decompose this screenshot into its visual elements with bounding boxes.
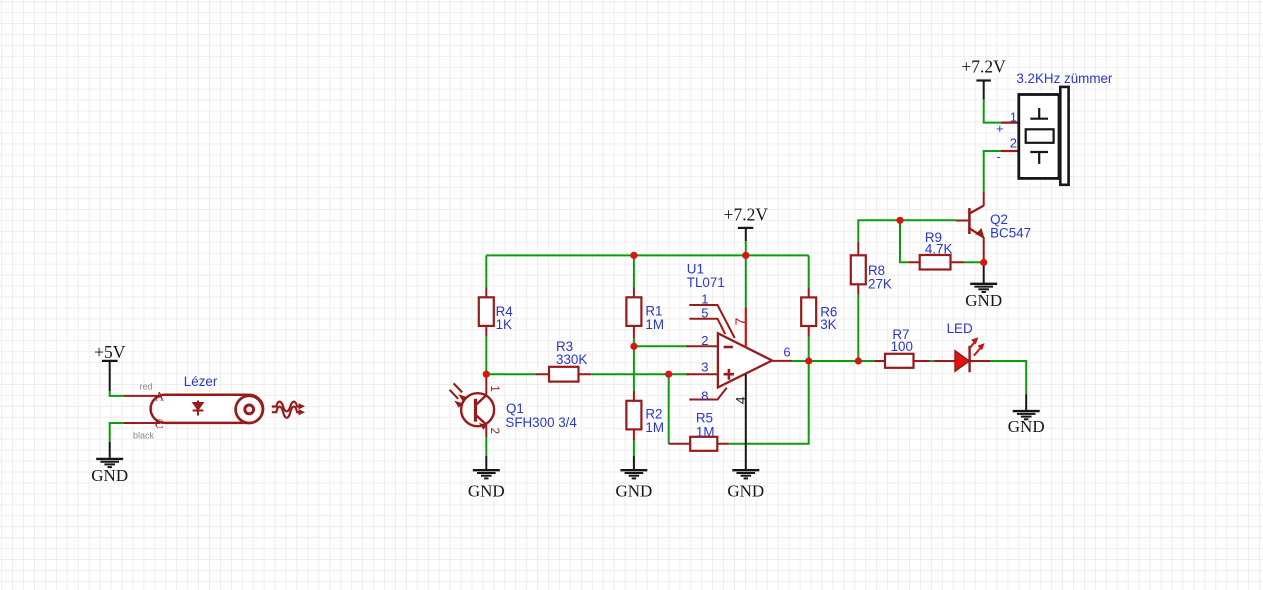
wire buzzer pin 2 to Q2 collector xyxy=(984,151,1001,192)
svg-text:6: 6 xyxy=(783,345,790,360)
wire R5 to output node xyxy=(729,361,809,444)
junction rail/pin7 xyxy=(742,252,749,259)
svg-text:8: 8 xyxy=(701,389,708,404)
svg-text:SFH300 3/4: SFH300 3/4 xyxy=(505,415,577,430)
svg-text:1: 1 xyxy=(701,292,708,307)
wire R1 to R2 (pin2 net vertical) xyxy=(633,338,635,391)
svg-text:1: 1 xyxy=(1010,109,1017,124)
plus mark xyxy=(724,369,734,380)
ground GND (R2) xyxy=(615,456,652,501)
svg-text:3K: 3K xyxy=(820,317,836,332)
svg-text:GND: GND xyxy=(615,482,652,501)
op-amp U1 TL071 xyxy=(687,262,792,471)
minus mark xyxy=(724,346,733,349)
svg-text:2: 2 xyxy=(1010,136,1017,151)
svg-text:1M: 1M xyxy=(645,317,664,332)
resistor R5 xyxy=(669,411,729,451)
svg-text:+7.2V: +7.2V xyxy=(961,56,1006,76)
pin 6 output xyxy=(772,360,792,362)
wire node to R3 xyxy=(486,373,535,375)
resistor R8 xyxy=(851,242,892,295)
wire +5V to laser pin A xyxy=(110,391,124,396)
+7.2V supply symbol (op-amp) xyxy=(724,205,769,241)
svg-text:7: 7 xyxy=(732,318,748,326)
svg-text:3.2KHz zümmer: 3.2KHz zümmer xyxy=(1016,71,1113,86)
svg-text:black: black xyxy=(133,431,155,441)
pin C lead xyxy=(123,422,160,424)
pin 2 xyxy=(687,345,718,347)
junction pin3/R5 xyxy=(665,371,672,378)
svg-text:Lézer: Lézer xyxy=(184,374,218,389)
svg-text:GND: GND xyxy=(965,291,1002,310)
lens circle xyxy=(236,396,263,423)
junction out/R8 xyxy=(855,357,862,364)
svg-text:330K: 330K xyxy=(556,352,587,367)
svg-text:GND: GND xyxy=(468,482,505,501)
wire rail to R1 xyxy=(633,255,635,287)
wire Q1 emitter to ground xyxy=(485,437,487,456)
beam squiggle arrows xyxy=(272,402,301,412)
ground GND (laser) xyxy=(91,442,128,485)
wire rail to R4 xyxy=(485,255,487,287)
wire R8 to base net xyxy=(858,220,955,242)
svg-text:2: 2 xyxy=(488,428,500,434)
svg-text:-: - xyxy=(997,149,1001,164)
junction base/R9 xyxy=(896,217,903,224)
svg-text:5: 5 xyxy=(701,306,708,321)
ground GND (Q1) xyxy=(468,456,505,501)
top power rail wire xyxy=(486,254,808,256)
wire R9 to emitter node xyxy=(964,261,984,263)
svg-text:1K: 1K xyxy=(496,317,512,332)
pin 3 xyxy=(687,373,718,375)
svg-text:1M: 1M xyxy=(696,424,715,439)
svg-text:27K: 27K xyxy=(868,277,892,292)
pin 7 (V+) xyxy=(745,308,747,348)
crystal element xyxy=(1030,108,1048,119)
buzzer SG1 3.2KHz zümmer xyxy=(996,71,1113,185)
svg-text:red: red xyxy=(140,382,153,392)
svg-text:+7.2V: +7.2V xyxy=(724,205,769,225)
wire output to R8 xyxy=(857,295,859,362)
wire output net xyxy=(792,360,875,362)
svg-text:1M: 1M xyxy=(645,420,664,435)
resistor R9 xyxy=(908,230,964,269)
resistor R1 xyxy=(626,288,664,339)
svg-text:GND: GND xyxy=(91,466,128,485)
ground GND (LED) xyxy=(1008,394,1045,436)
internal diode xyxy=(197,401,199,416)
wire +7.2V to buzzer pin 1 xyxy=(984,100,1001,123)
wire R7 to LED xyxy=(930,360,935,362)
pin A lead xyxy=(123,395,160,397)
svg-text:C: C xyxy=(155,416,164,431)
junction out/R6 xyxy=(805,357,812,364)
laser module (Lézer) xyxy=(123,374,305,431)
wire R6 to output xyxy=(808,337,810,362)
pin 1 xyxy=(689,305,734,338)
wire Q2 emitter to ground xyxy=(983,263,985,284)
svg-text:+: + xyxy=(996,121,1004,136)
body xyxy=(1019,95,1059,179)
wire base node down to R9 xyxy=(900,220,908,262)
triangle body xyxy=(718,333,772,387)
LED light arrows xyxy=(969,341,976,350)
transistor Q2 BC547 xyxy=(956,192,1031,263)
svg-text:BC547: BC547 xyxy=(990,226,1031,241)
resistor R7 xyxy=(875,327,930,368)
wire R4 to node xyxy=(485,336,487,374)
phototransistor Q1 xyxy=(450,374,578,436)
wire +7.2V to rail and pin 7 xyxy=(745,241,747,307)
svg-text:1: 1 xyxy=(488,385,500,391)
pin 4 (V-) xyxy=(745,374,747,470)
svg-text:A: A xyxy=(155,388,165,403)
+7.2V supply symbol (buzzer) xyxy=(961,56,1006,99)
resistor R6 xyxy=(801,288,837,337)
junction R1/pin2 xyxy=(630,343,637,350)
ground GND (Q2) xyxy=(965,284,1002,310)
capsule body xyxy=(151,395,264,423)
svg-text:4: 4 xyxy=(732,396,748,404)
resistor R3 xyxy=(535,339,591,382)
LED D1 xyxy=(934,321,990,372)
pin 1 lead xyxy=(1001,121,1019,123)
pin 8 xyxy=(689,388,726,400)
svg-text:+5V: +5V xyxy=(94,342,126,362)
svg-text:2: 2 xyxy=(701,333,708,348)
wire rail to R6 xyxy=(808,255,810,287)
light arrows xyxy=(454,383,463,392)
svg-text:LED: LED xyxy=(947,321,973,336)
ground GND (U1 pin4) xyxy=(727,470,764,500)
junction emitter/R9/GND xyxy=(980,259,987,266)
wire R3 to op-amp pin 3 xyxy=(591,373,689,375)
svg-text:3: 3 xyxy=(701,359,708,374)
svg-text:4.7K: 4.7K xyxy=(925,242,953,257)
junction rail/R1 xyxy=(630,252,637,259)
resistor R4 xyxy=(479,288,513,337)
wire pin3 node down to R5 xyxy=(668,374,670,444)
wire pin2 net horizontal xyxy=(634,345,689,347)
svg-text:100: 100 xyxy=(891,339,913,354)
svg-text:GND: GND xyxy=(1008,417,1045,436)
resistor R2 xyxy=(626,391,664,440)
svg-text:TL071: TL071 xyxy=(687,275,725,290)
pin 5 xyxy=(689,319,725,334)
+5V supply symbol xyxy=(94,342,126,391)
wire R2 to ground xyxy=(633,440,635,456)
pin 2 lead xyxy=(1001,150,1019,152)
wire LED to ground xyxy=(990,361,1026,394)
wire laser pin C to ground xyxy=(110,423,124,442)
junction R4/Q1/R3 xyxy=(483,371,490,378)
svg-text:GND: GND xyxy=(727,482,764,501)
